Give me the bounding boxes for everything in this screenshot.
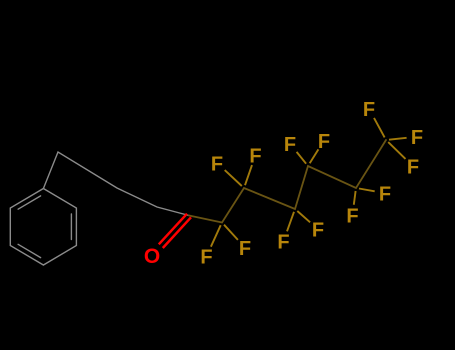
svg-text:O: O (144, 245, 160, 268)
svg-text:F: F (211, 153, 223, 175)
C7-F7 bond (388, 142, 405, 159)
C5-F4 bond (310, 149, 319, 163)
C4-F10 bond (297, 211, 310, 222)
perfluorohexyl backbone wire C1-C2-C3-C4-C5-C6-C7 (189, 140, 386, 223)
svg-text:F: F (411, 127, 423, 149)
benzene ring inner double-bond line (right edge) (70, 214, 72, 240)
C7-F6 bond (389, 138, 407, 140)
svg-text:F: F (346, 206, 358, 228)
alkyl chain wire: ring to carbonyl carbon C1 (43, 152, 189, 216)
C6-F9 bond (354, 191, 356, 205)
C3-F2 bond (245, 165, 252, 185)
benzene ring inner double-bond line (top-left edge) (18, 196, 40, 209)
benzene ring inner double-bond line (bottom-left edge) (18, 244, 40, 257)
svg-text:F: F (312, 220, 324, 242)
benzene ring (phenyl) outer hexagon (10, 189, 76, 266)
carbonyl C=O double bond (red), line 2 (163, 217, 191, 248)
svg-text:F: F (239, 238, 251, 260)
svg-text:F: F (200, 247, 212, 269)
C6-F8 bond (359, 189, 375, 192)
C3-F1 bond (225, 170, 242, 186)
svg-text:F: F (277, 232, 289, 254)
svg-text:F: F (379, 184, 391, 206)
C7-F5 bond (374, 118, 385, 137)
svg-text:F: F (318, 131, 330, 153)
carbonyl C=O double bond (red), line 1 (159, 214, 187, 245)
C2-F12 bond (224, 225, 238, 240)
svg-text:F: F (284, 134, 296, 156)
C2-F13 bond (211, 225, 221, 247)
C5-F3 bond (297, 152, 307, 164)
svg-text:F: F (363, 99, 375, 121)
C4-F11 bond (287, 212, 294, 232)
atom labels F1-F13 (fluorine) (200, 99, 423, 269)
svg-text:F: F (407, 157, 419, 179)
svg-text:F: F (249, 146, 261, 168)
